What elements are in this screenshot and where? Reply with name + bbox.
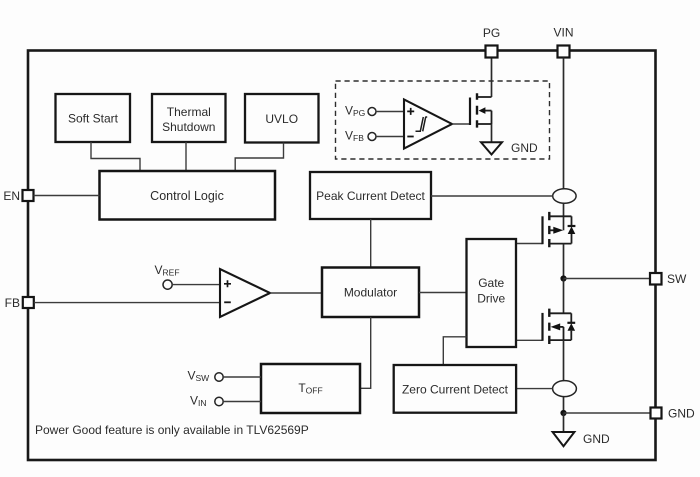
svg-text:Thermal: Thermal [167,105,211,119]
svg-text:Power Good feature is only ava: Power Good feature is only available in … [35,423,309,437]
wire SW node to Q3 drain [563,279,565,314]
ground symbol bottom [553,432,610,446]
wire Gate Drive to Q2 gate [516,243,543,245]
block TOFF [261,364,360,413]
op-amp U2 power good comparator with hysteresis [404,100,452,149]
svg-text:Gate: Gate [478,276,504,290]
pin FB [5,296,34,310]
svg-text:Control Logic: Control Logic [150,189,224,203]
zero current sensor ellipse [553,381,577,397]
wire SW node to SW pin [564,278,651,280]
wire GND node down to ground symbol [563,413,565,432]
svg-text:VIN: VIN [553,26,573,40]
block UVLO [245,94,319,143]
pin GND [651,407,696,421]
svg-text:Peak Current Detect: Peak Current Detect [316,189,425,203]
wire VREF to comparator U1 [172,284,220,286]
wire Peak Current Detect to sensor [431,195,553,197]
wire comparator U1 to Modulator [270,292,322,294]
svg-text:PG: PG [483,26,500,40]
transistor Q2 high side MOSFET [543,212,572,247]
IC boundary box [28,51,656,461]
transistor Q1 power good MOSFET [470,93,492,127]
svg-text:Zero Current Detect: Zero Current Detect [402,383,509,397]
pin VIN [553,26,573,58]
wire Peak Current Detect to Modulator [370,219,372,268]
peak current sensor ellipse [553,189,576,204]
block Soft Start [56,94,131,142]
ground symbol in dashed box [481,141,538,155]
wire Q3 source to zero current sensor [563,340,565,381]
svg-text:EN: EN [3,189,20,203]
svg-text:Drive: Drive [477,292,505,306]
svg-text:VSW: VSW [188,369,210,384]
pin EN [3,189,33,203]
svg-text:SW: SW [667,272,687,286]
svg-text:VFB: VFB [345,129,364,144]
block Gate Drive [467,239,517,347]
wire Thermal Shutdown to Control Logic [185,142,187,171]
svg-text:UVLO: UVLO [265,112,298,126]
footnote text [35,423,309,437]
svg-text:GND: GND [583,432,610,446]
wire Soft Start to Control Logic [91,142,140,171]
wire FB to comparator U1 [34,302,220,304]
node VSW input [188,369,224,384]
svg-text:GND: GND [668,407,695,421]
wire PG pin to Q1 drain [491,58,493,98]
svg-text:VIN: VIN [190,394,207,409]
svg-text:Modulator: Modulator [344,286,397,300]
wire UVLO to Control Logic [235,143,283,172]
node VREF input [155,263,180,289]
node VFB input [345,129,376,144]
node SW junction [560,275,566,281]
wire VFB to comparator [376,136,404,138]
svg-text:Soft Start: Soft Start [68,112,119,126]
wire VIN to TOFF [223,401,261,403]
transistor Q3 low side MOSFET [543,309,572,344]
pin PG [483,26,500,58]
wire EN to Control Logic [34,195,100,197]
svg-text:GND: GND [511,141,538,155]
block Peak Current Detect [310,172,431,219]
block Zero Current Detect [394,365,516,413]
pin SW [650,272,687,286]
wire Gate Drive to Q3 gate [516,339,543,341]
wire VPG to comparator [376,111,404,113]
wire Gate Drive to Zero Current Detect [443,337,466,365]
svg-text:VPG: VPG [345,104,365,119]
node GND junction [560,410,566,416]
dashed box power good circuit [336,81,550,159]
wire VIN pin down to current sensor [563,58,565,189]
wire Modulator to Gate Drive [419,292,467,294]
body diode D1 of Q2 [568,216,576,243]
svg-text:FB: FB [5,296,20,310]
wire Q2 drain to SW node [563,244,565,279]
wire sensor to Q2 source and body [563,203,565,230]
wire VSW to TOFF [223,376,261,378]
block Modulator [322,268,419,318]
node VPG input [345,104,376,119]
wire comparator U2 output to Q1 gate [452,123,470,125]
block Control Logic [100,171,276,220]
op-amp U1 error comparator [220,269,270,317]
body diode D2 of Q3 [567,313,575,340]
wire Modulator to TOFF [360,317,371,388]
svg-text:Shutdown: Shutdown [162,120,215,134]
wire sensor to GND node [563,397,565,413]
wire GND node to GND pin [564,412,651,414]
node VIN input [190,394,223,409]
wire Q1 source to ground [491,124,493,142]
block Thermal Shutdown [152,94,226,142]
wire Zero Current Detect to sensor [516,388,553,390]
svg-text:VREF: VREF [155,263,180,278]
